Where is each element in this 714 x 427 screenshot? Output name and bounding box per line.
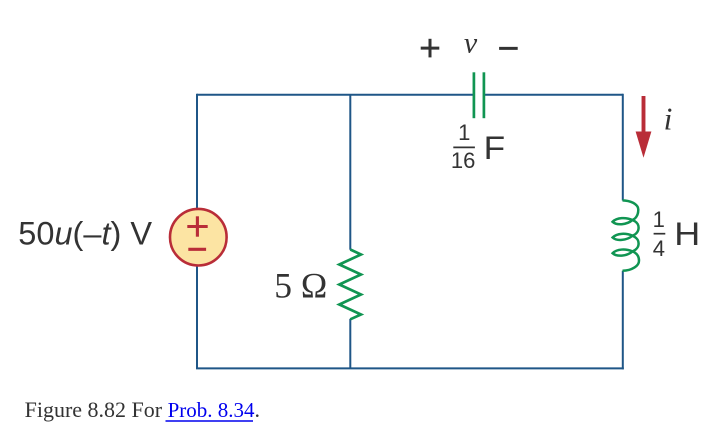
svg-text:1: 1 [653, 207, 665, 232]
svg-text:F: F [484, 130, 506, 166]
wire left branch [196, 94, 198, 369]
current arrow i head [636, 132, 652, 158]
svg-text:i: i [664, 102, 673, 137]
svg-text:1: 1 [458, 120, 470, 145]
svg-text:16: 16 [451, 148, 475, 173]
svg-text:4: 4 [653, 236, 665, 261]
capacitor C left plate [473, 72, 476, 118]
resistor R 5ohm zigzag [339, 250, 361, 320]
wire middle branch lower segment [349, 319, 351, 369]
wire right branch lower segment [622, 271, 624, 370]
inductor L coil [613, 200, 639, 270]
capacitor polarity plus label [421, 39, 440, 58]
svg-text:Figure 8.82 For Prob. 8.34.: Figure 8.82 For Prob. 8.34. [25, 397, 260, 422]
svg-text:H: H [674, 216, 700, 252]
caption link underline [166, 420, 254, 422]
wire top-right segment (capacitor right plate to top-right corner) [485, 94, 623, 96]
voltage source minus sign [188, 248, 206, 251]
capacitor polarity minus label [499, 47, 518, 50]
wire right branch upper segment [622, 94, 624, 201]
wire bottom [196, 367, 624, 369]
inductor value fraction bar [654, 233, 666, 235]
current arrow i shaft [642, 96, 646, 134]
voltage source V1 circle [170, 209, 227, 266]
svg-text:50u(–t) V: 50u(–t) V [18, 215, 152, 251]
wire top-left segment (top node to capacitor left plate) [197, 94, 473, 96]
capacitor C right plate [483, 72, 486, 118]
svg-text:5 Ω: 5 Ω [274, 266, 327, 306]
capacitor value fraction bar [453, 146, 475, 148]
svg-text:v: v [464, 27, 478, 60]
voltage source plus sign [187, 216, 207, 236]
wire middle branch upper segment [349, 95, 351, 250]
